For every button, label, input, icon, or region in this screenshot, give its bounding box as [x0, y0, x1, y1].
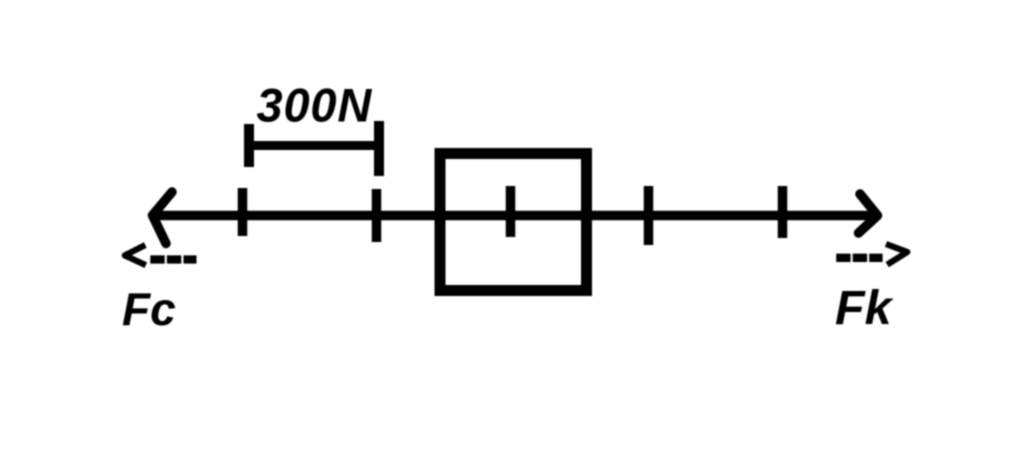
tick mark 5 — [778, 186, 788, 238]
dashed arrow left chevron (Fc direction) — [125, 245, 146, 265]
box (block on the line) — [440, 154, 587, 291]
dimension bracket right end bar — [374, 121, 384, 176]
dimension bracket horizontal line — [244, 141, 384, 150]
tick mark 1 — [238, 188, 248, 236]
svg-text:Fk: Fk — [835, 281, 894, 335]
dashed arrow right dashes — [836, 254, 882, 262]
tick mark 2 — [372, 189, 382, 242]
svg-text:300N: 300N — [257, 79, 373, 132]
dashed arrow right chevron (Fk direction) — [886, 244, 907, 265]
dimension bracket left end bar — [244, 124, 254, 167]
tick mark 3 (inside box) — [506, 186, 516, 237]
right arrowhead — [859, 194, 878, 233]
left arrowhead — [153, 192, 173, 244]
dashed arrow left dashes — [150, 255, 196, 263]
main horizontal axis line — [152, 211, 876, 221]
svg-text:Fc: Fc — [122, 283, 176, 335]
tick mark 4 — [644, 186, 654, 245]
